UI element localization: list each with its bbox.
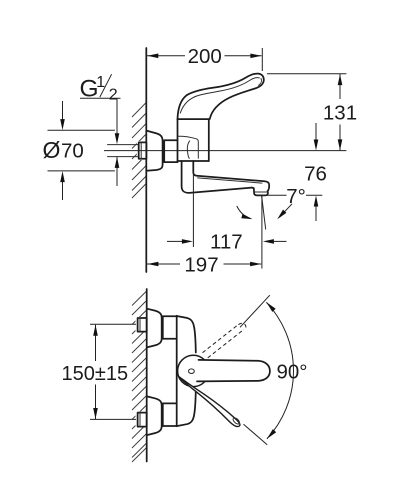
logo dot on dome	[189, 369, 195, 374]
radial reference lines for 90 deg arc	[240, 295, 270, 327]
svg-text:197: 197	[184, 253, 218, 276]
dim diameter 70	[43, 101, 115, 200]
cartridge dome (plan)	[178, 355, 209, 386]
dim 200 top	[147, 45, 262, 71]
svg-text:7°: 7°	[286, 185, 306, 208]
bottom wall socket (plan)	[138, 413, 147, 427]
svg-text:76: 76	[304, 162, 327, 185]
dim G 1/2 label	[80, 74, 121, 186]
7 degree spout angle	[237, 185, 322, 229]
lever pill (plan, horizontal position)	[200, 360, 270, 382]
svg-text:70: 70	[61, 140, 84, 163]
svg-text:2: 2	[109, 87, 118, 104]
outlet extension line down	[261, 196, 263, 269]
bottom connection nut (plan)	[163, 403, 177, 426]
wall socket white mask	[137, 141, 147, 160]
wall hatching (side view)	[132, 103, 146, 199]
svg-text:Ø: Ø	[43, 137, 61, 163]
dim 76 right	[304, 123, 327, 221]
dashed lever (plan, raised position)	[203, 323, 246, 358]
90 degree swing arc	[266, 302, 293, 439]
inlet centerline	[104, 150, 346, 152]
svg-text:150±15: 150±15	[62, 363, 129, 385]
escutcheon (side view)	[146, 131, 162, 171]
connection nut	[164, 140, 177, 162]
spout inner lines	[198, 178, 262, 183]
dim 131 right	[267, 74, 357, 151]
top wall socket (plan)	[138, 318, 147, 332]
svg-text:117: 117	[210, 231, 243, 254]
handle inner contour lines	[180, 78, 259, 113]
dim 150 +/- 15	[62, 324, 136, 419]
body front boss detail	[178, 136, 198, 158]
faucet body	[178, 119, 209, 161]
top escutcheon (plan)	[147, 309, 162, 348]
socket white masks (plan)	[136, 317, 147, 333]
svg-text:200: 200	[188, 45, 222, 68]
lever blade (plan, lowered position)	[179, 377, 240, 427]
wall hatching (plan view)	[132, 291, 147, 462]
faucet body (plan)	[177, 316, 196, 427]
dim 117	[167, 174, 287, 254]
svg-text:131: 131	[323, 102, 357, 125]
supply pipe G1/2 through wall	[108, 142, 147, 158]
bottom escutcheon (plan)	[147, 396, 162, 435]
lever handle (side view)	[178, 74, 264, 120]
wall face line (plan view)	[146, 289, 148, 462]
svg-text:90°: 90°	[277, 361, 308, 384]
spout	[182, 161, 270, 195]
wall face line (side view)	[145, 48, 147, 272]
dim 197	[147, 253, 261, 276]
top connection nut (plan)	[163, 316, 177, 339]
